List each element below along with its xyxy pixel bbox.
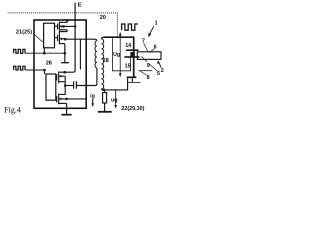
transistor Q4 (57, 94, 67, 105)
wire Q4 source to ground (66, 103, 68, 114)
node input1/driver (43, 52, 46, 55)
layer line 8 (128, 81, 141, 83)
gate cap stub (131, 78, 133, 82)
wire input lower (25, 69, 45, 71)
input2 riser to driver (44, 70, 46, 74)
transformer secondary winding (101, 37, 103, 89)
resistor bottom lead (104, 103, 106, 111)
svg-text:ig: ig (90, 94, 95, 100)
gate wire to device (thick) (103, 37, 133, 49)
output rail to primary top (65, 39, 97, 41)
gate bottom cap (127, 76, 137, 78)
input squiggle lower (14, 66, 25, 70)
transistor Q2 (58, 31, 68, 44)
dashed box 20 right edge (116, 13, 118, 37)
svg-text:ug: ug (111, 97, 118, 103)
transistor Q1 (58, 22, 68, 31)
svg-text:20: 20 (100, 15, 106, 21)
leader 7 (144, 43, 148, 52)
svg-text:26: 26 (46, 61, 52, 67)
input squiggle upper (14, 49, 25, 53)
gate mid plate (124, 56, 139, 58)
Ug measurement box (112, 38, 130, 71)
layer contact line (138, 70, 152, 72)
svg-text:28: 28 (103, 58, 109, 64)
wire Q4 body to box edge (67, 98, 87, 100)
svg-text:8: 8 (147, 75, 150, 81)
leader 21(25) (34, 34, 43, 42)
ig arrow (92, 99, 94, 105)
node dot secondary bottom (103, 89, 106, 92)
Q1 source to Q2 drain riser (66, 30, 68, 32)
svg-text:14: 14 (125, 43, 131, 49)
wire Q1 body to E stem (64, 25, 76, 27)
node input2/driver (43, 69, 46, 72)
transistor Q2 gate lead (55, 37, 58, 39)
transistor Q3 gate lead (55, 76, 56, 78)
driver box 21(25) (34, 20, 86, 108)
leader 5 (149, 64, 157, 71)
hanging rail branch (79, 39, 81, 69)
resistor Rg (103, 93, 107, 103)
svg-text:15: 15 (125, 64, 131, 70)
ground under resistor (98, 111, 112, 113)
node Q1 drain / box top (66, 19, 68, 21)
svg-text:Fig.4: Fig.4 (4, 105, 21, 114)
svg-text:22(29,30): 22(29,30) (121, 106, 144, 112)
node Q2 body / rail (64, 38, 67, 41)
Q4 drain riser (59, 86, 65, 95)
leader 9 (141, 56, 146, 61)
svg-text:2: 2 (161, 68, 164, 74)
secondary bottom lead (101, 89, 103, 90)
node Q1 body (62, 25, 65, 28)
gate oxide blob (130, 52, 134, 57)
node Q3 drain (63, 71, 66, 74)
transistor Q3 (57, 71, 65, 83)
semiconductor body rectangle (137, 52, 161, 60)
wire E corner to Q3 drain (59, 71, 73, 73)
node Q4 body (65, 98, 68, 101)
wire input upper (25, 52, 65, 54)
Q2 source descent (64, 44, 66, 63)
gate top plate (126, 49, 139, 51)
leader arrow 1 (150, 26, 154, 33)
svg-text:E: E (78, 3, 82, 9)
dashed box 20 top edge (8, 12, 118, 14)
leader 8 (140, 71, 147, 75)
Q3 body/source riser (64, 76, 66, 85)
svg-text:1: 1 (155, 20, 158, 26)
sub-block lower driver 26 (46, 74, 56, 100)
leader arrow 2 (159, 62, 161, 68)
ug arrow (115, 89, 117, 105)
square wave symbol (122, 24, 138, 30)
svg-text:5: 5 (157, 71, 160, 77)
node E stem (74, 25, 77, 28)
E stem wire (73, 3, 75, 73)
sub-block upper driver (44, 23, 55, 48)
wire secondary node to device cathode-gate (104, 78, 128, 90)
resistor top lead (104, 90, 106, 93)
transformer primary lower lead (95, 68, 97, 86)
node input1 / Q2 source (64, 52, 67, 55)
internal ground bar (61, 62, 69, 64)
ground below box (61, 114, 71, 116)
transformer primary winding (95, 41, 97, 68)
svg-text:Ug: Ug (113, 52, 120, 58)
gate electrode spine (thick) (133, 49, 135, 77)
svg-text:7: 7 (142, 38, 145, 44)
Q1 drain riser to box top (66, 20, 68, 22)
transistor Q1 gate lead (55, 25, 58, 27)
leader 6 (149, 49, 154, 53)
node Q3 source / cap (64, 84, 67, 87)
Ug arrow (119, 35, 121, 74)
transistor Q4 gate lead (55, 98, 58, 100)
coupling capacitor C (65, 81, 95, 88)
svg-text:21(25): 21(25) (16, 29, 32, 35)
input1 riser to driver (43, 48, 45, 53)
